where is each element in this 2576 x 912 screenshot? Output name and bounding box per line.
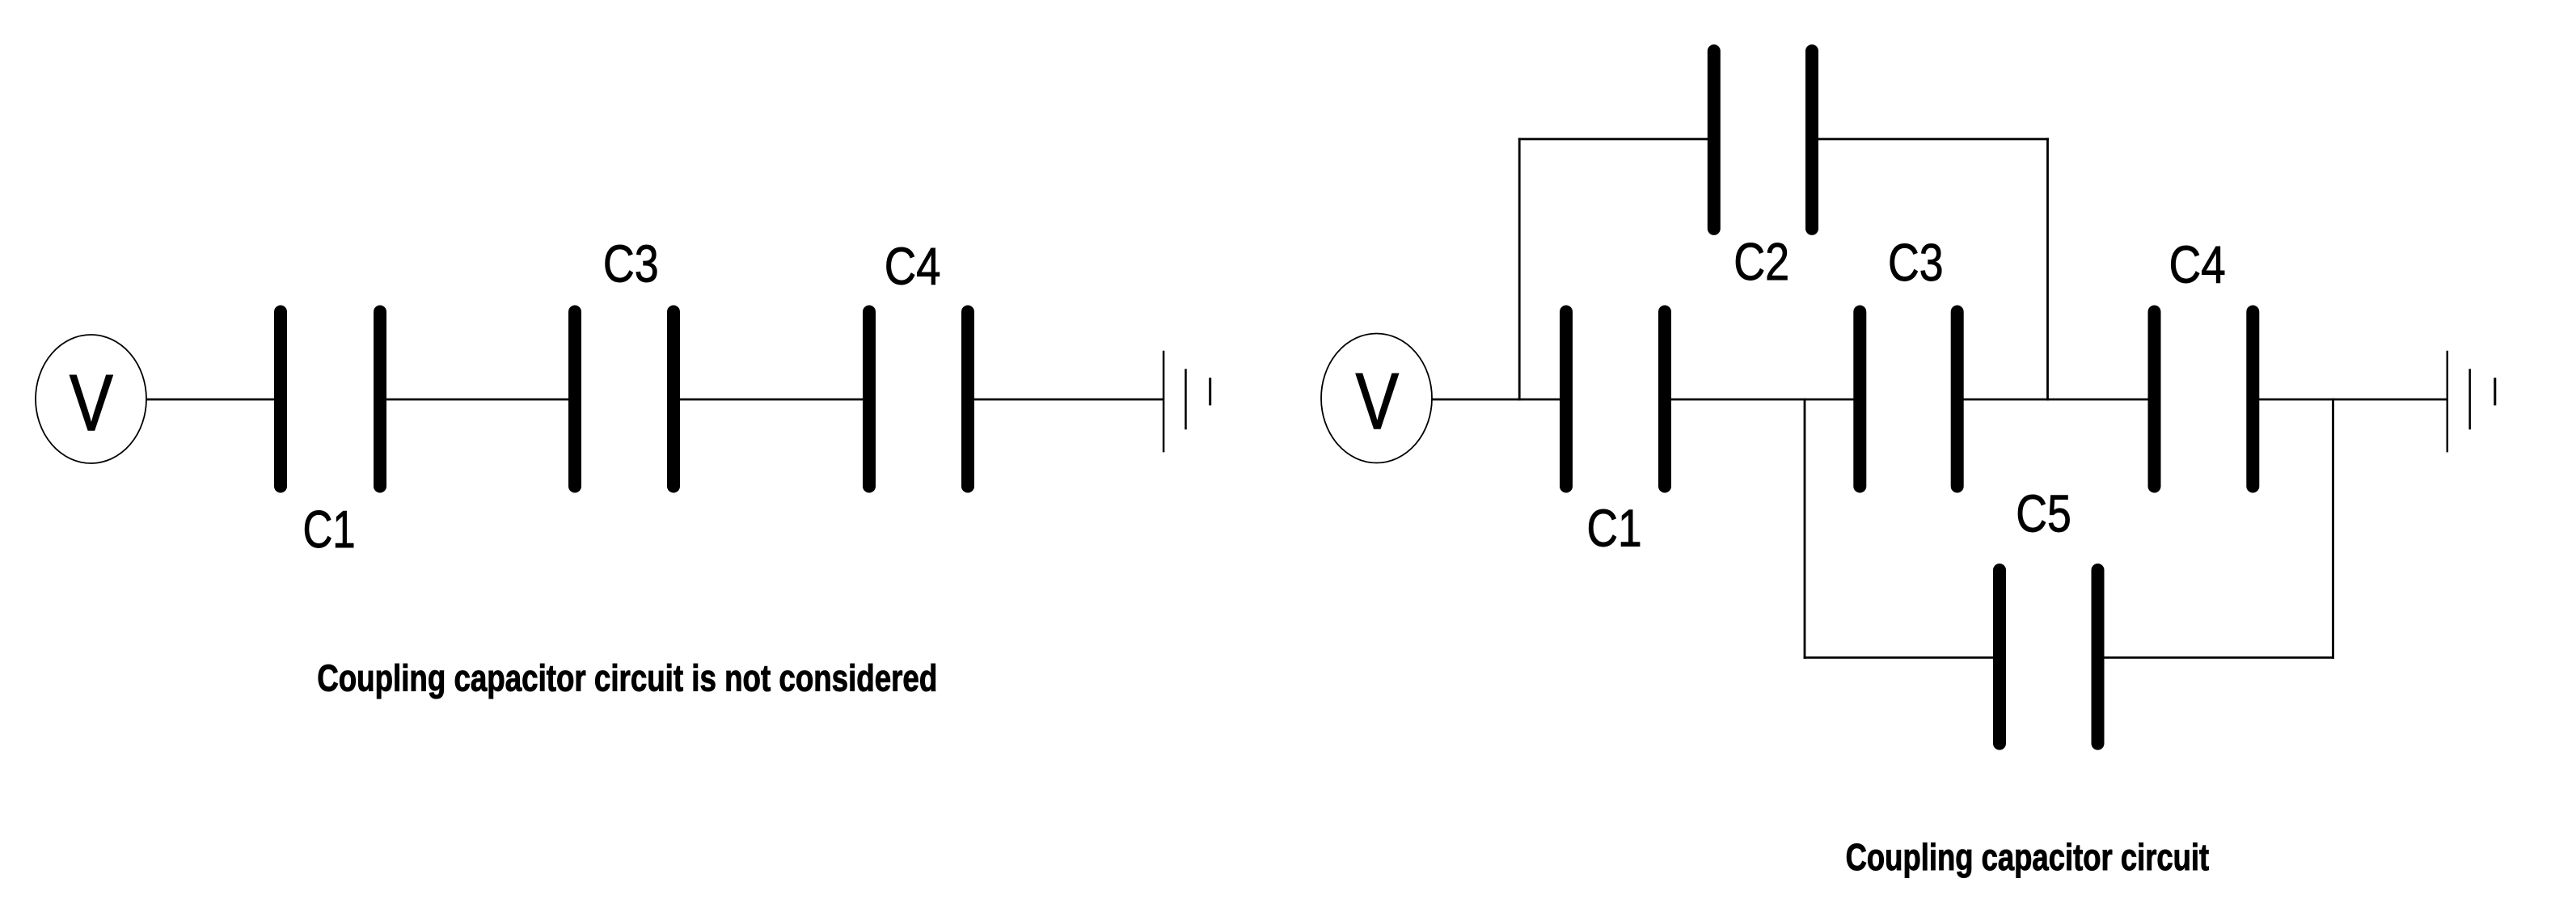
wire C4 to ground	[968, 399, 1163, 401]
wire C1 to C3	[380, 399, 575, 401]
capacitor C2 plate 1	[1708, 51, 1721, 229]
wire C3 to C4	[674, 399, 869, 401]
ground (right) bar 3	[2494, 378, 2496, 405]
capacitor C4 (right) plate 2	[2246, 312, 2259, 487]
ground (right) bar 2	[2468, 369, 2471, 429]
capacitor C2 plate 2	[1805, 51, 1818, 229]
wire C3 to C4 (node C tap)	[1957, 399, 2154, 401]
svg-text:V: V	[1356, 357, 1400, 445]
C2 branch: wire up-left	[1518, 138, 1521, 401]
capacitor C4 (right) plate 1	[2148, 312, 2161, 487]
capacitor C3 (left) plate 1	[568, 312, 581, 487]
capacitor C3 (right) plate 1	[1853, 312, 1866, 487]
wire V to C1	[146, 399, 281, 401]
capacitor C4 (left) plate 2	[961, 312, 974, 487]
svg-text:C2: C2	[1734, 232, 1789, 291]
ground (left) bar 1	[1163, 351, 1165, 453]
capacitor C5 plate 2	[2092, 570, 2105, 744]
capacitor C3 (left) plate 2	[667, 312, 680, 487]
capacitor C3 (right) plate 2	[1951, 312, 1964, 487]
capacitor C1 (right) plate 1	[1560, 312, 1573, 487]
svg-text:V: V	[70, 358, 113, 448]
ground (right) bar 1	[2447, 351, 2449, 453]
svg-text:Coupling capacitor circuit: Coupling capacitor circuit	[1846, 836, 2210, 878]
svg-text:C5: C5	[2016, 484, 2071, 543]
voltage source V (right)	[1321, 334, 1432, 463]
svg-text:C4: C4	[885, 237, 941, 296]
ground (left) bar 2	[1185, 369, 1187, 429]
svg-text:C4: C4	[2168, 235, 2225, 293]
C2 branch: wire down-right	[2046, 138, 2049, 401]
capacitor C1 (left) plate 2	[374, 312, 386, 487]
svg-text:C1: C1	[302, 500, 355, 559]
C5 branch: wire bottom-left	[1804, 657, 2000, 659]
svg-text:C1: C1	[1587, 498, 1642, 557]
voltage source V (left)	[36, 335, 146, 463]
wire C4 to ground (node D tap)	[2253, 399, 2447, 401]
C5 branch: wire up-right	[2332, 399, 2334, 659]
capacitor C5 plate 1	[1993, 570, 2006, 744]
wire V to node A	[1432, 399, 1566, 401]
svg-text:C3: C3	[1888, 233, 1944, 292]
svg-text:C3: C3	[603, 234, 659, 293]
C2 branch: wire top-right	[1812, 138, 2049, 141]
C5 branch: wire down-left	[1804, 399, 1806, 659]
capacitor C1 (right) plate 2	[1658, 312, 1671, 487]
capacitor C1 (left) plate 1	[274, 312, 287, 487]
wire C1 to C3 (node B tap)	[1665, 399, 1860, 401]
ground (left) bar 3	[1209, 378, 1211, 405]
C5 branch: wire bottom-right	[2098, 657, 2334, 659]
capacitor C4 (left) plate 1	[863, 312, 876, 487]
C2 branch: wire top-left	[1518, 138, 1714, 141]
svg-text:Coupling capacitor circuit is: Coupling capacitor circuit is not consid…	[317, 657, 937, 699]
